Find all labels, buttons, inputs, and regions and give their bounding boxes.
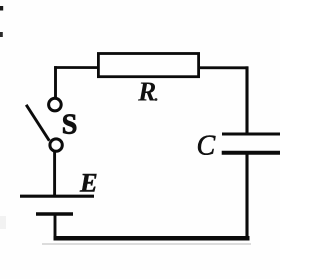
switch S1 upper contact circle: [49, 98, 62, 111]
svg-text:E: E: [79, 168, 98, 198]
faint scan shadow line under bottom wire: [42, 243, 251, 245]
switch S1 lever (open blade): [26, 105, 49, 141]
stray mark left edge: [0, 32, 3, 37]
wire right vertical lower (capacitor to bottom): [245, 153, 248, 240]
wire switch to battery: [53, 152, 56, 197]
battery E1 long plate (+): [20, 195, 94, 198]
switch S1 lower contact circle: [50, 139, 62, 151]
wire battery to bottom: [54, 214, 57, 239]
resistor R1 box: [98, 54, 198, 77]
wire left vertical (top corner to switch): [54, 66, 57, 98]
svg-text:R: R: [137, 76, 156, 107]
capacitor C1 lower plate: [222, 151, 280, 155]
svg-text:S: S: [62, 109, 78, 140]
stray mark top-left: [0, 6, 3, 11]
wire right vertical upper (corner to capacitor): [245, 66, 248, 134]
dot after R: [155, 98, 158, 101]
faint ghost mark left edge bottom: [0, 216, 6, 229]
wire bottom horizontal: [54, 236, 250, 241]
svg-text:C: C: [197, 131, 216, 162]
capacitor C1 upper plate: [222, 132, 280, 135]
battery E1 short plate (-): [36, 212, 73, 215]
wire top horizontal: [54, 66, 248, 69]
